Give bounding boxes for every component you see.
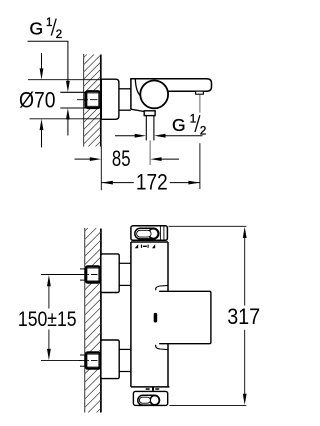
upper connector nipples (119, 263, 131, 285)
tube centre extension line (149, 140, 151, 165)
172 dimension (wall to aerator centre) (199, 143, 201, 189)
svg-text:G: G (172, 115, 186, 135)
connector between flange and body (119, 89, 131, 110)
svg-text:85: 85 (112, 146, 131, 171)
upper union centerline (79, 274, 102, 276)
150±15 dimension (41, 275, 82, 361)
aerator on spout underside (196, 91, 204, 94)
G 1/2 label (spout outlet) (172, 113, 206, 137)
shower outlet nut (144, 111, 155, 116)
bottom cap (volume handle) (133, 391, 167, 405)
svg-text:1: 1 (190, 113, 196, 125)
wall union nut (in-wall fitting, top view) (85, 91, 100, 108)
G1/2 lower arrow (up, at union bottom) (67, 119, 69, 136)
317 dimension (169, 226, 247, 405)
markings above bottom cap (146, 387, 160, 390)
wall hatching (bottom view) (85, 228, 101, 413)
markings below top cap (135, 244, 156, 248)
svg-text:G: G (30, 19, 44, 39)
svg-text:150±15: 150±15 (18, 308, 77, 331)
inner thread rectangle (87, 93, 99, 106)
fillet between body top and knob (135, 79, 141, 97)
wall (hatched section, top view) (84, 54, 101, 147)
lower in-wall union nut (85, 352, 100, 368)
bottom cap pill (138, 395, 160, 405)
G1/2 outlet dimension arrows (115, 135, 203, 137)
svg-text:Ø70: Ø70 (19, 88, 56, 113)
Ø70 extension lines (through wall to flange edges) (28, 80, 101, 119)
spout root fillet bottom (156, 345, 168, 350)
body bottom sloped edge (131, 109, 144, 111)
lower pipe stubs (80, 355, 85, 366)
spout block (front view) (159, 291, 211, 343)
svg-text:2: 2 (56, 29, 62, 41)
top cap pill (135, 228, 159, 239)
pipe / extension lines into wall union (60, 92, 86, 108)
svg-text:317: 317 (227, 304, 260, 329)
leader line from G1/2 to wall union (28, 41, 68, 81)
wall hatching (top view) (84, 55, 101, 147)
lower S-union block (101, 340, 119, 379)
thermostat knob (circle, side view) (140, 81, 168, 109)
wall face extension line (100, 147, 102, 191)
upper pipe stubs (80, 269, 85, 280)
shower outlet tube (146, 116, 154, 140)
upper S-union block (101, 254, 119, 293)
top cap (shut-off handle) (131, 226, 168, 241)
escutcheon flange (top view) (101, 79, 119, 119)
union centerline (dash-dot) (77, 99, 102, 101)
leader arrowhead (down, at union top) (66, 81, 70, 92)
svg-text:172: 172 (136, 170, 168, 195)
wall (hatched section, bottom view) (85, 228, 101, 413)
G 1/2 label (top left) (30, 17, 63, 41)
lower connector nipples (119, 349, 131, 371)
upper in-wall union nut (85, 266, 100, 282)
aerator leader line (199, 95, 201, 113)
spout root fillet top (156, 285, 168, 290)
body column (front view) (131, 242, 170, 387)
Ø70 dimension arrows (41, 53, 43, 148)
lower union centerline (79, 360, 102, 362)
safestop button (154, 313, 158, 323)
svg-text:1: 1 (46, 17, 52, 29)
faucet body outline (side view) (131, 79, 212, 109)
85 dimension (wall to outlet centre) (75, 158, 180, 160)
